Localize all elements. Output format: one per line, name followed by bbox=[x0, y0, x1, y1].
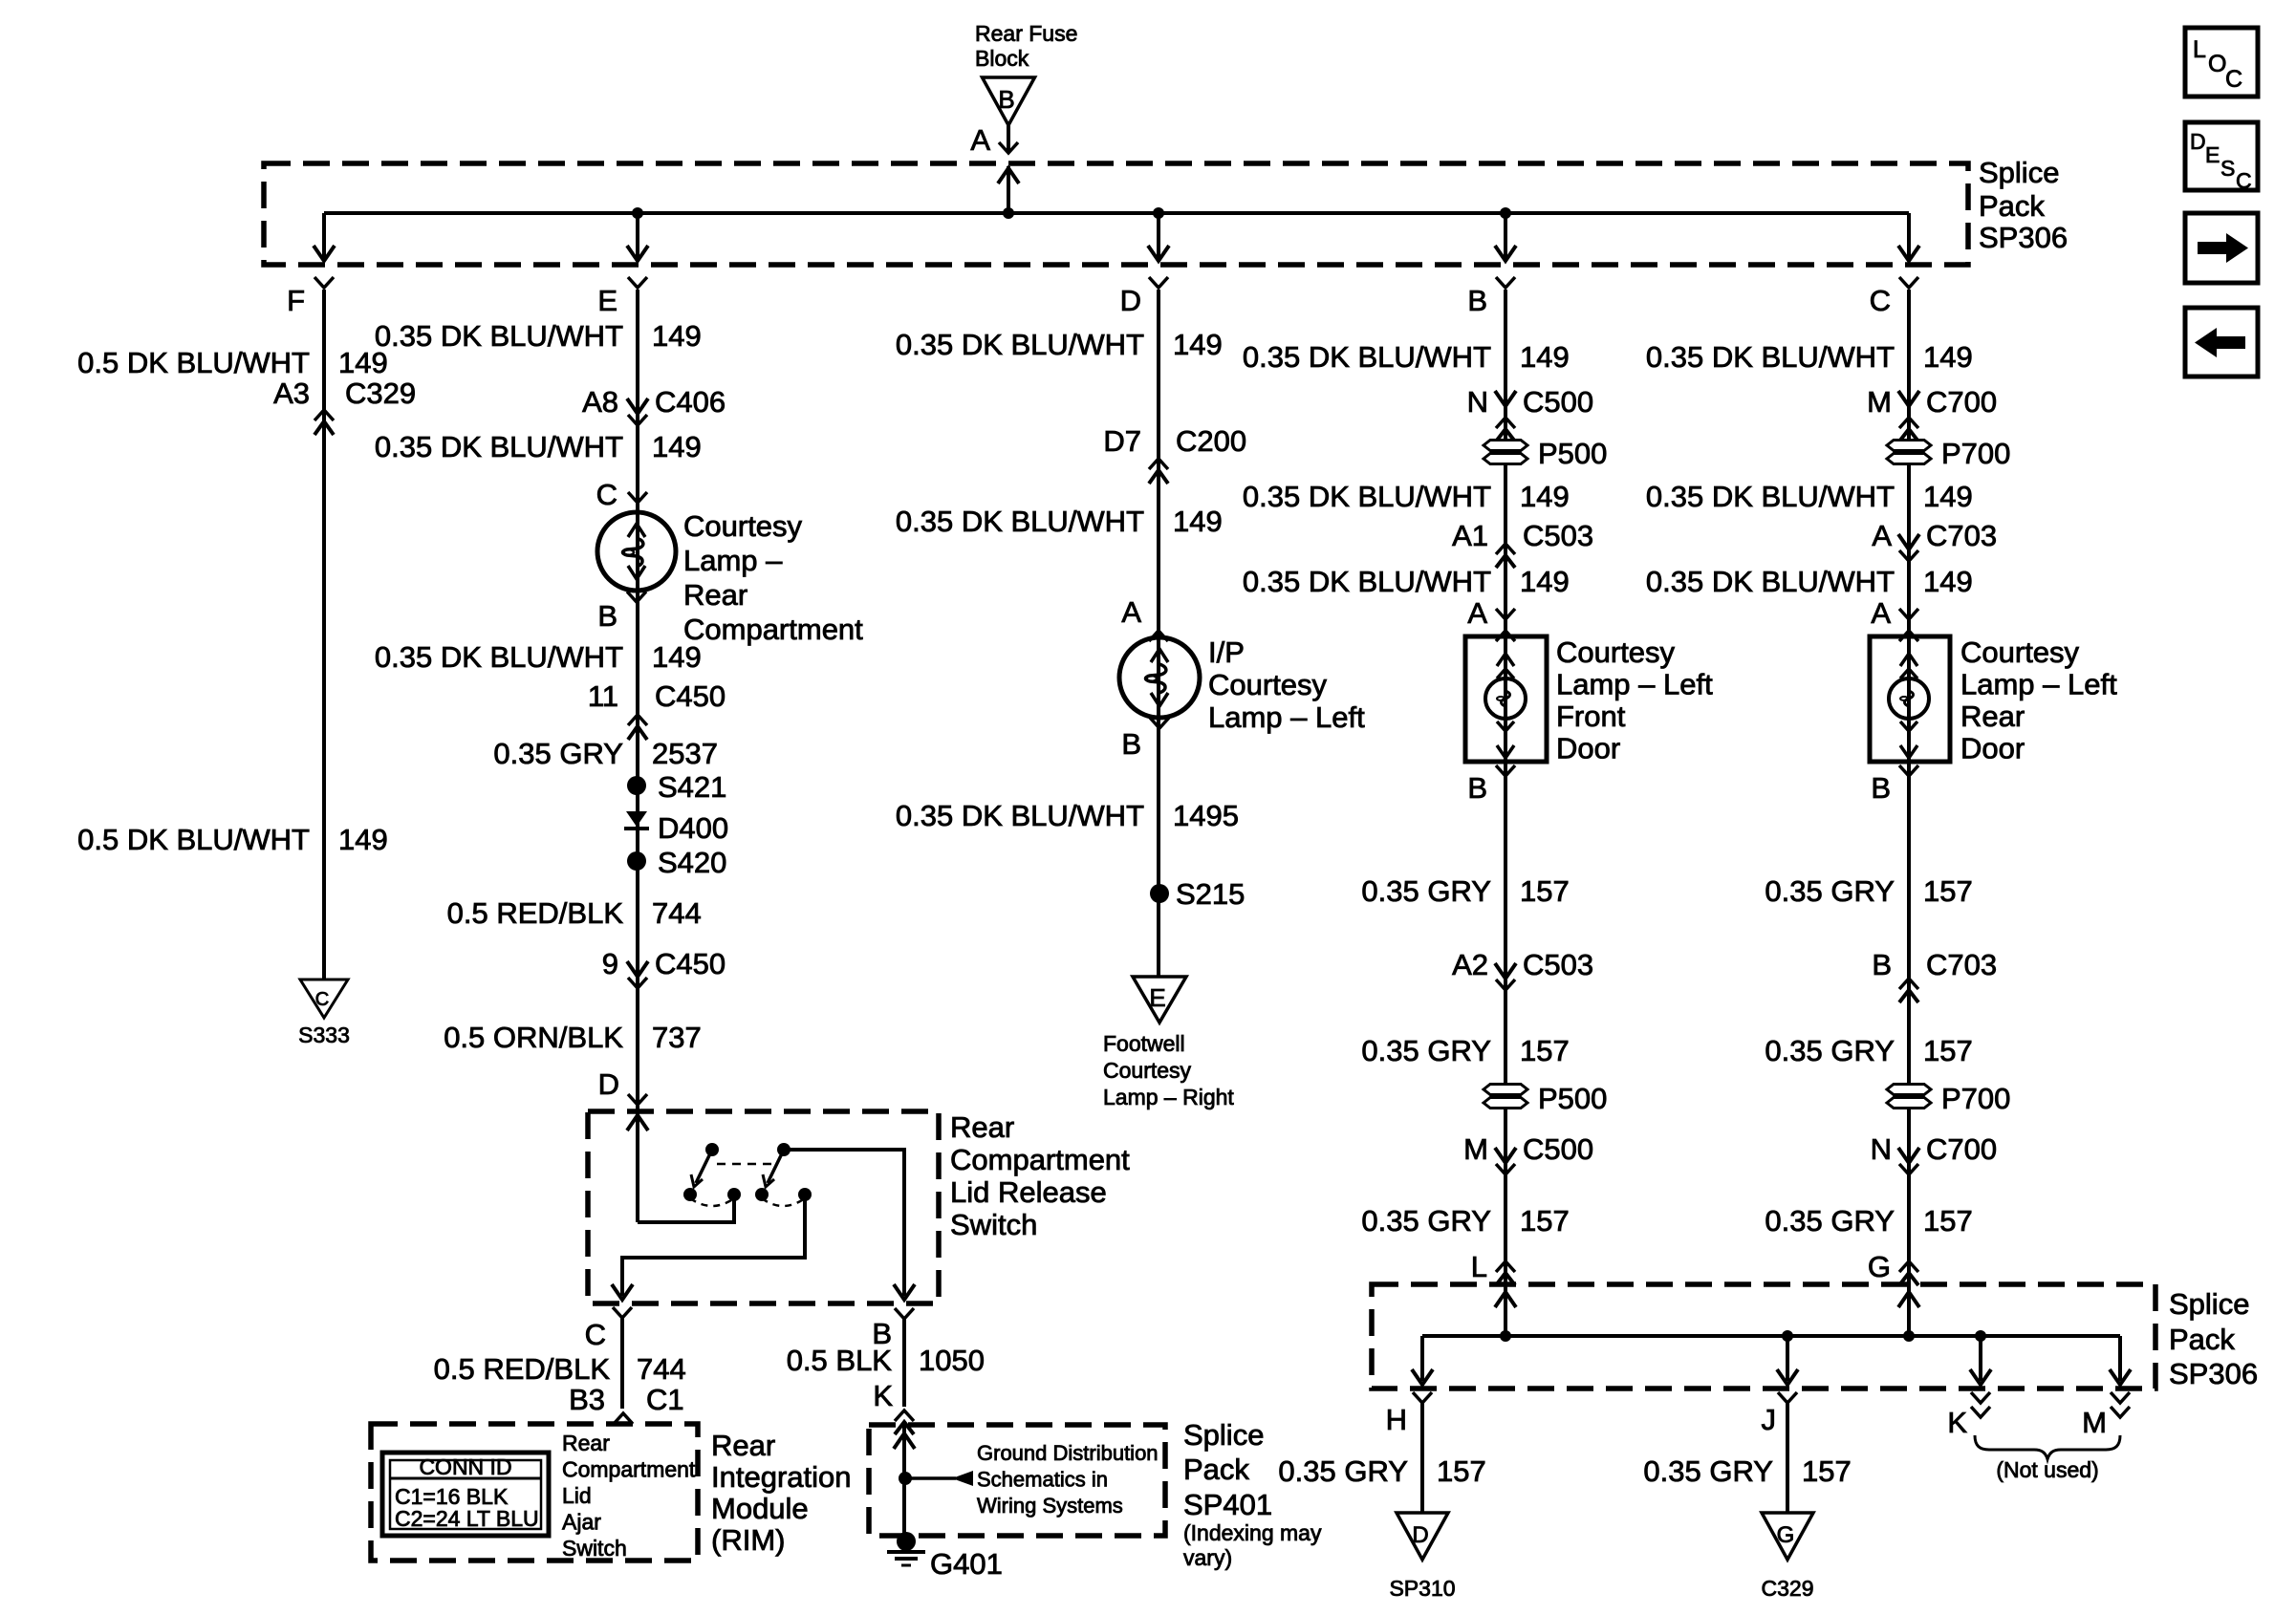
svg-text:A: A bbox=[1871, 596, 1891, 630]
svg-text:Wiring Systems: Wiring Systems bbox=[977, 1494, 1123, 1518]
svg-text:I/P: I/P bbox=[1208, 635, 1245, 669]
svg-text:149: 149 bbox=[338, 823, 388, 856]
svg-text:A8: A8 bbox=[582, 385, 618, 419]
svg-text:Schematics in: Schematics in bbox=[977, 1468, 1108, 1492]
svg-text:E: E bbox=[2205, 142, 2220, 167]
svg-text:B: B bbox=[998, 85, 1014, 114]
svg-text:149: 149 bbox=[1520, 565, 1570, 598]
svg-text:149: 149 bbox=[1173, 505, 1223, 538]
svg-text:9: 9 bbox=[602, 947, 618, 980]
svg-text:0.35 DK BLU/WHT: 0.35 DK BLU/WHT bbox=[1646, 480, 1895, 513]
svg-text:1495: 1495 bbox=[1173, 799, 1239, 832]
svg-text:C503: C503 bbox=[1523, 948, 1593, 981]
svg-text:Rear Fuse: Rear Fuse bbox=[975, 21, 1077, 46]
svg-text:Courtesy: Courtesy bbox=[1556, 635, 1676, 669]
svg-text:0.35 GRY: 0.35 GRY bbox=[1361, 1204, 1491, 1238]
svg-text:S: S bbox=[2220, 156, 2235, 181]
svg-text:B: B bbox=[597, 599, 617, 633]
svg-text:L: L bbox=[2193, 36, 2206, 63]
svg-text:0.35 DK BLU/WHT: 0.35 DK BLU/WHT bbox=[896, 505, 1144, 538]
svg-text:157: 157 bbox=[1520, 874, 1570, 908]
svg-text:Compartment: Compartment bbox=[950, 1143, 1130, 1176]
svg-text:SP306: SP306 bbox=[2169, 1357, 2258, 1390]
svg-text:C406: C406 bbox=[655, 385, 726, 419]
svg-text:Courtesy: Courtesy bbox=[1103, 1058, 1192, 1083]
svg-text:Footwell: Footwell bbox=[1103, 1031, 1185, 1056]
svg-text:C: C bbox=[2236, 168, 2252, 193]
svg-text:Module: Module bbox=[711, 1492, 809, 1525]
svg-text:C2=24 LT BLU: C2=24 LT BLU bbox=[395, 1506, 539, 1531]
svg-text:C700: C700 bbox=[1926, 385, 1997, 419]
svg-text:Door: Door bbox=[1960, 732, 2025, 765]
svg-text:G: G bbox=[1777, 1522, 1795, 1548]
svg-text:Rear: Rear bbox=[711, 1429, 775, 1462]
svg-text:Rear: Rear bbox=[1960, 700, 2025, 733]
svg-text:P500: P500 bbox=[1538, 1082, 1607, 1115]
svg-text:Lid: Lid bbox=[562, 1483, 592, 1508]
svg-text:A: A bbox=[970, 123, 990, 157]
svg-text:0.35 DK BLU/WHT: 0.35 DK BLU/WHT bbox=[375, 640, 623, 674]
svg-text:Pack: Pack bbox=[1979, 189, 2045, 223]
svg-text:B: B bbox=[1467, 284, 1487, 317]
svg-text:Block: Block bbox=[975, 46, 1029, 71]
svg-text:0.35 GRY: 0.35 GRY bbox=[1765, 1204, 1895, 1238]
svg-text:149: 149 bbox=[1173, 328, 1223, 361]
svg-text:D: D bbox=[2190, 129, 2206, 154]
svg-text:C450: C450 bbox=[655, 679, 726, 713]
svg-text:0.35 GRY: 0.35 GRY bbox=[1361, 1034, 1491, 1067]
svg-text:C: C bbox=[585, 1318, 606, 1351]
svg-text:N: N bbox=[1871, 1132, 1892, 1166]
svg-text:Pack: Pack bbox=[2169, 1323, 2235, 1356]
svg-text:E: E bbox=[597, 284, 617, 317]
svg-text:P700: P700 bbox=[1941, 1082, 2010, 1115]
svg-text:H: H bbox=[1386, 1403, 1407, 1436]
svg-text:Compartment: Compartment bbox=[562, 1457, 696, 1482]
svg-text:157: 157 bbox=[1802, 1454, 1852, 1488]
svg-text:C: C bbox=[2225, 66, 2242, 93]
svg-text:C450: C450 bbox=[655, 947, 726, 980]
svg-text:157: 157 bbox=[1923, 1034, 1973, 1067]
svg-text:0.5 BLK: 0.5 BLK bbox=[787, 1344, 893, 1377]
svg-text:149: 149 bbox=[1923, 565, 1973, 598]
svg-text:O: O bbox=[2208, 51, 2226, 77]
svg-text:Splice: Splice bbox=[1183, 1418, 1264, 1452]
svg-text:C1: C1 bbox=[646, 1383, 684, 1416]
svg-text:Splice: Splice bbox=[2169, 1287, 2249, 1321]
svg-text:0.35 GRY: 0.35 GRY bbox=[493, 737, 623, 770]
svg-text:C503: C503 bbox=[1523, 519, 1593, 552]
svg-text:11: 11 bbox=[588, 679, 618, 713]
svg-text:C: C bbox=[596, 478, 617, 511]
svg-text:0.35 DK BLU/WHT: 0.35 DK BLU/WHT bbox=[896, 799, 1144, 832]
svg-text:0.5 ORN/BLK: 0.5 ORN/BLK bbox=[444, 1021, 623, 1054]
svg-text:SP401: SP401 bbox=[1183, 1488, 1272, 1521]
svg-text:0.35 GRY: 0.35 GRY bbox=[1765, 1034, 1895, 1067]
svg-text:C329: C329 bbox=[1762, 1576, 1814, 1601]
svg-text:Rear: Rear bbox=[683, 578, 747, 612]
svg-text:744: 744 bbox=[652, 896, 702, 930]
svg-text:A3: A3 bbox=[273, 377, 310, 410]
svg-text:B: B bbox=[1121, 727, 1141, 761]
svg-text:A2: A2 bbox=[1452, 948, 1488, 981]
svg-text:B: B bbox=[1871, 771, 1891, 805]
svg-text:C500: C500 bbox=[1523, 1132, 1593, 1166]
svg-text:Rear: Rear bbox=[950, 1110, 1014, 1144]
svg-text:157: 157 bbox=[1923, 1204, 1973, 1238]
svg-text:G: G bbox=[1868, 1250, 1891, 1283]
svg-text:149: 149 bbox=[652, 430, 702, 463]
svg-text:J: J bbox=[1762, 1403, 1777, 1436]
svg-text:M: M bbox=[2082, 1406, 2107, 1439]
svg-text:157: 157 bbox=[1520, 1204, 1570, 1238]
svg-text:0.35 DK BLU/WHT: 0.35 DK BLU/WHT bbox=[1243, 565, 1491, 598]
svg-text:0.5 DK BLU/WHT: 0.5 DK BLU/WHT bbox=[77, 823, 310, 856]
svg-text:0.35 GRY: 0.35 GRY bbox=[1765, 874, 1895, 908]
svg-text:744: 744 bbox=[637, 1352, 686, 1386]
svg-text:C700: C700 bbox=[1926, 1132, 1997, 1166]
svg-text:Lamp – Left: Lamp – Left bbox=[1960, 668, 2117, 701]
svg-text:0.35 DK BLU/WHT: 0.35 DK BLU/WHT bbox=[375, 319, 623, 353]
svg-text:Compartment: Compartment bbox=[683, 613, 863, 646]
svg-text:Lamp –: Lamp – bbox=[683, 544, 783, 577]
svg-text:157: 157 bbox=[1923, 874, 1973, 908]
svg-text:149: 149 bbox=[652, 319, 702, 353]
svg-text:157: 157 bbox=[1437, 1454, 1486, 1488]
svg-text:149: 149 bbox=[1923, 480, 1973, 513]
svg-text:Courtesy: Courtesy bbox=[1208, 668, 1328, 701]
svg-text:Ground Distribution: Ground Distribution bbox=[977, 1441, 1159, 1465]
svg-text:Ajar: Ajar bbox=[562, 1510, 601, 1535]
svg-text:D: D bbox=[598, 1067, 619, 1101]
svg-text:0.35 DK BLU/WHT: 0.35 DK BLU/WHT bbox=[1646, 565, 1895, 598]
svg-text:(RIM): (RIM) bbox=[711, 1523, 785, 1557]
svg-text:K: K bbox=[1947, 1406, 1967, 1439]
svg-text:vary): vary) bbox=[1183, 1545, 1232, 1570]
svg-text:Lid Release: Lid Release bbox=[950, 1175, 1107, 1209]
svg-text:Courtesy: Courtesy bbox=[683, 509, 803, 543]
svg-text:C500: C500 bbox=[1523, 385, 1593, 419]
svg-text:A: A bbox=[1467, 596, 1487, 630]
svg-text:C703: C703 bbox=[1926, 519, 1997, 552]
svg-text:0.35 DK BLU/WHT: 0.35 DK BLU/WHT bbox=[1646, 340, 1895, 374]
svg-text:SP310: SP310 bbox=[1389, 1576, 1455, 1601]
svg-text:0.35 DK BLU/WHT: 0.35 DK BLU/WHT bbox=[375, 430, 623, 463]
svg-text:M: M bbox=[1463, 1132, 1488, 1166]
svg-text:C703: C703 bbox=[1926, 948, 1997, 981]
svg-text:Pack: Pack bbox=[1183, 1453, 1249, 1486]
svg-text:SP306: SP306 bbox=[1979, 221, 2068, 254]
svg-text:B3: B3 bbox=[569, 1383, 605, 1416]
svg-text:A1: A1 bbox=[1452, 519, 1488, 552]
svg-text:F: F bbox=[287, 284, 305, 317]
svg-text:0.5 RED/BLK: 0.5 RED/BLK bbox=[447, 896, 624, 930]
svg-text:D400: D400 bbox=[658, 811, 728, 845]
svg-text:1050: 1050 bbox=[919, 1344, 985, 1377]
svg-text:737: 737 bbox=[652, 1021, 702, 1054]
svg-text:CONN ID: CONN ID bbox=[419, 1454, 511, 1479]
svg-text:Lamp – Left: Lamp – Left bbox=[1208, 700, 1365, 734]
svg-text:P500: P500 bbox=[1538, 437, 1607, 470]
svg-text:0.35 DK BLU/WHT: 0.35 DK BLU/WHT bbox=[896, 328, 1144, 361]
svg-text:Door: Door bbox=[1556, 732, 1620, 765]
svg-text:2537: 2537 bbox=[652, 737, 718, 770]
svg-text:D: D bbox=[1120, 284, 1141, 317]
svg-text:C: C bbox=[315, 989, 329, 1010]
svg-text:149: 149 bbox=[1520, 480, 1570, 513]
svg-text:0.35 GRY: 0.35 GRY bbox=[1643, 1454, 1773, 1488]
svg-text:G401: G401 bbox=[930, 1547, 1003, 1581]
svg-text:P700: P700 bbox=[1941, 437, 2010, 470]
svg-text:0.35 DK BLU/WHT: 0.35 DK BLU/WHT bbox=[1243, 340, 1491, 374]
svg-text:K: K bbox=[873, 1379, 893, 1412]
svg-text:149: 149 bbox=[1520, 340, 1570, 374]
svg-text:S333: S333 bbox=[298, 1023, 350, 1047]
svg-text:Rear: Rear bbox=[562, 1431, 610, 1455]
svg-text:C200: C200 bbox=[1176, 424, 1246, 458]
svg-text:149: 149 bbox=[1923, 340, 1973, 374]
svg-text:Switch: Switch bbox=[950, 1208, 1037, 1241]
svg-text:(Indexing may: (Indexing may bbox=[1183, 1520, 1322, 1545]
svg-text:149: 149 bbox=[652, 640, 702, 674]
svg-text:Integration: Integration bbox=[711, 1460, 852, 1494]
svg-text:M: M bbox=[1867, 385, 1892, 419]
svg-text:A: A bbox=[1121, 595, 1141, 629]
svg-text:0.5 RED/BLK: 0.5 RED/BLK bbox=[434, 1352, 611, 1386]
svg-text:C: C bbox=[1870, 284, 1891, 317]
svg-text:Switch: Switch bbox=[562, 1536, 627, 1561]
svg-text:157: 157 bbox=[1520, 1034, 1570, 1067]
svg-text:B: B bbox=[1467, 771, 1487, 805]
svg-text:S421: S421 bbox=[658, 770, 726, 804]
svg-text:Lamp – Right: Lamp – Right bbox=[1103, 1085, 1234, 1109]
svg-text:C329: C329 bbox=[345, 377, 416, 410]
svg-text:0.35 DK BLU/WHT: 0.35 DK BLU/WHT bbox=[1243, 480, 1491, 513]
svg-text:Front: Front bbox=[1556, 700, 1626, 733]
svg-text:A: A bbox=[1872, 519, 1892, 552]
svg-text:0.35 GRY: 0.35 GRY bbox=[1278, 1454, 1408, 1488]
svg-text:B: B bbox=[1872, 948, 1892, 981]
svg-text:Courtesy: Courtesy bbox=[1960, 635, 2080, 669]
svg-text:N: N bbox=[1467, 385, 1488, 419]
svg-text:L: L bbox=[1471, 1250, 1487, 1283]
svg-text:Splice: Splice bbox=[1979, 156, 2059, 189]
svg-text:0.5 DK BLU/WHT: 0.5 DK BLU/WHT bbox=[77, 346, 310, 379]
svg-text:S215: S215 bbox=[1176, 877, 1245, 911]
svg-text:E: E bbox=[1149, 983, 1165, 1012]
svg-text:Lamp – Left: Lamp – Left bbox=[1556, 668, 1713, 701]
svg-text:D: D bbox=[1412, 1522, 1428, 1548]
svg-text:0.35 GRY: 0.35 GRY bbox=[1361, 874, 1491, 908]
svg-text:S420: S420 bbox=[658, 846, 726, 879]
svg-text:D7: D7 bbox=[1103, 424, 1141, 458]
svg-text:(Not used): (Not used) bbox=[1996, 1457, 2098, 1482]
